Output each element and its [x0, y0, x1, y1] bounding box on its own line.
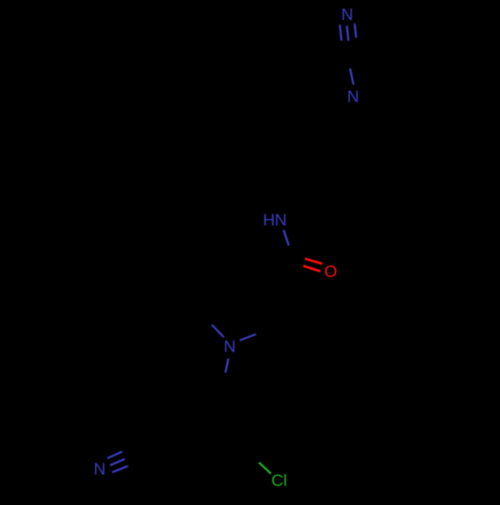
- wire N3-C2 (amide N to carbonyl C half bond): [284, 230, 289, 246]
- svg-text:N: N: [347, 87, 359, 106]
- wire ring bond from N4 upper-right: [240, 334, 256, 340]
- svg-text:O: O: [324, 262, 337, 281]
- double bond C2=O1: [303, 259, 322, 272]
- wire ring bond into N4 upper-left: [212, 325, 224, 337]
- svg-text:N: N: [224, 337, 236, 356]
- wire C1-N2 (cyanamide single bond half): [350, 69, 354, 85]
- svg-text:N: N: [94, 460, 106, 479]
- svg-text:N: N: [341, 5, 353, 24]
- wire aryl C to Cl (half bond): [259, 463, 271, 474]
- svg-text:Cl: Cl: [271, 471, 287, 490]
- wire N4 to aryl carbon (downward half bond): [225, 359, 228, 373]
- triple bond N1#C1: [340, 24, 356, 41]
- triple bond N5#C3: [107, 452, 128, 473]
- svg-text:HN: HN: [263, 211, 287, 230]
